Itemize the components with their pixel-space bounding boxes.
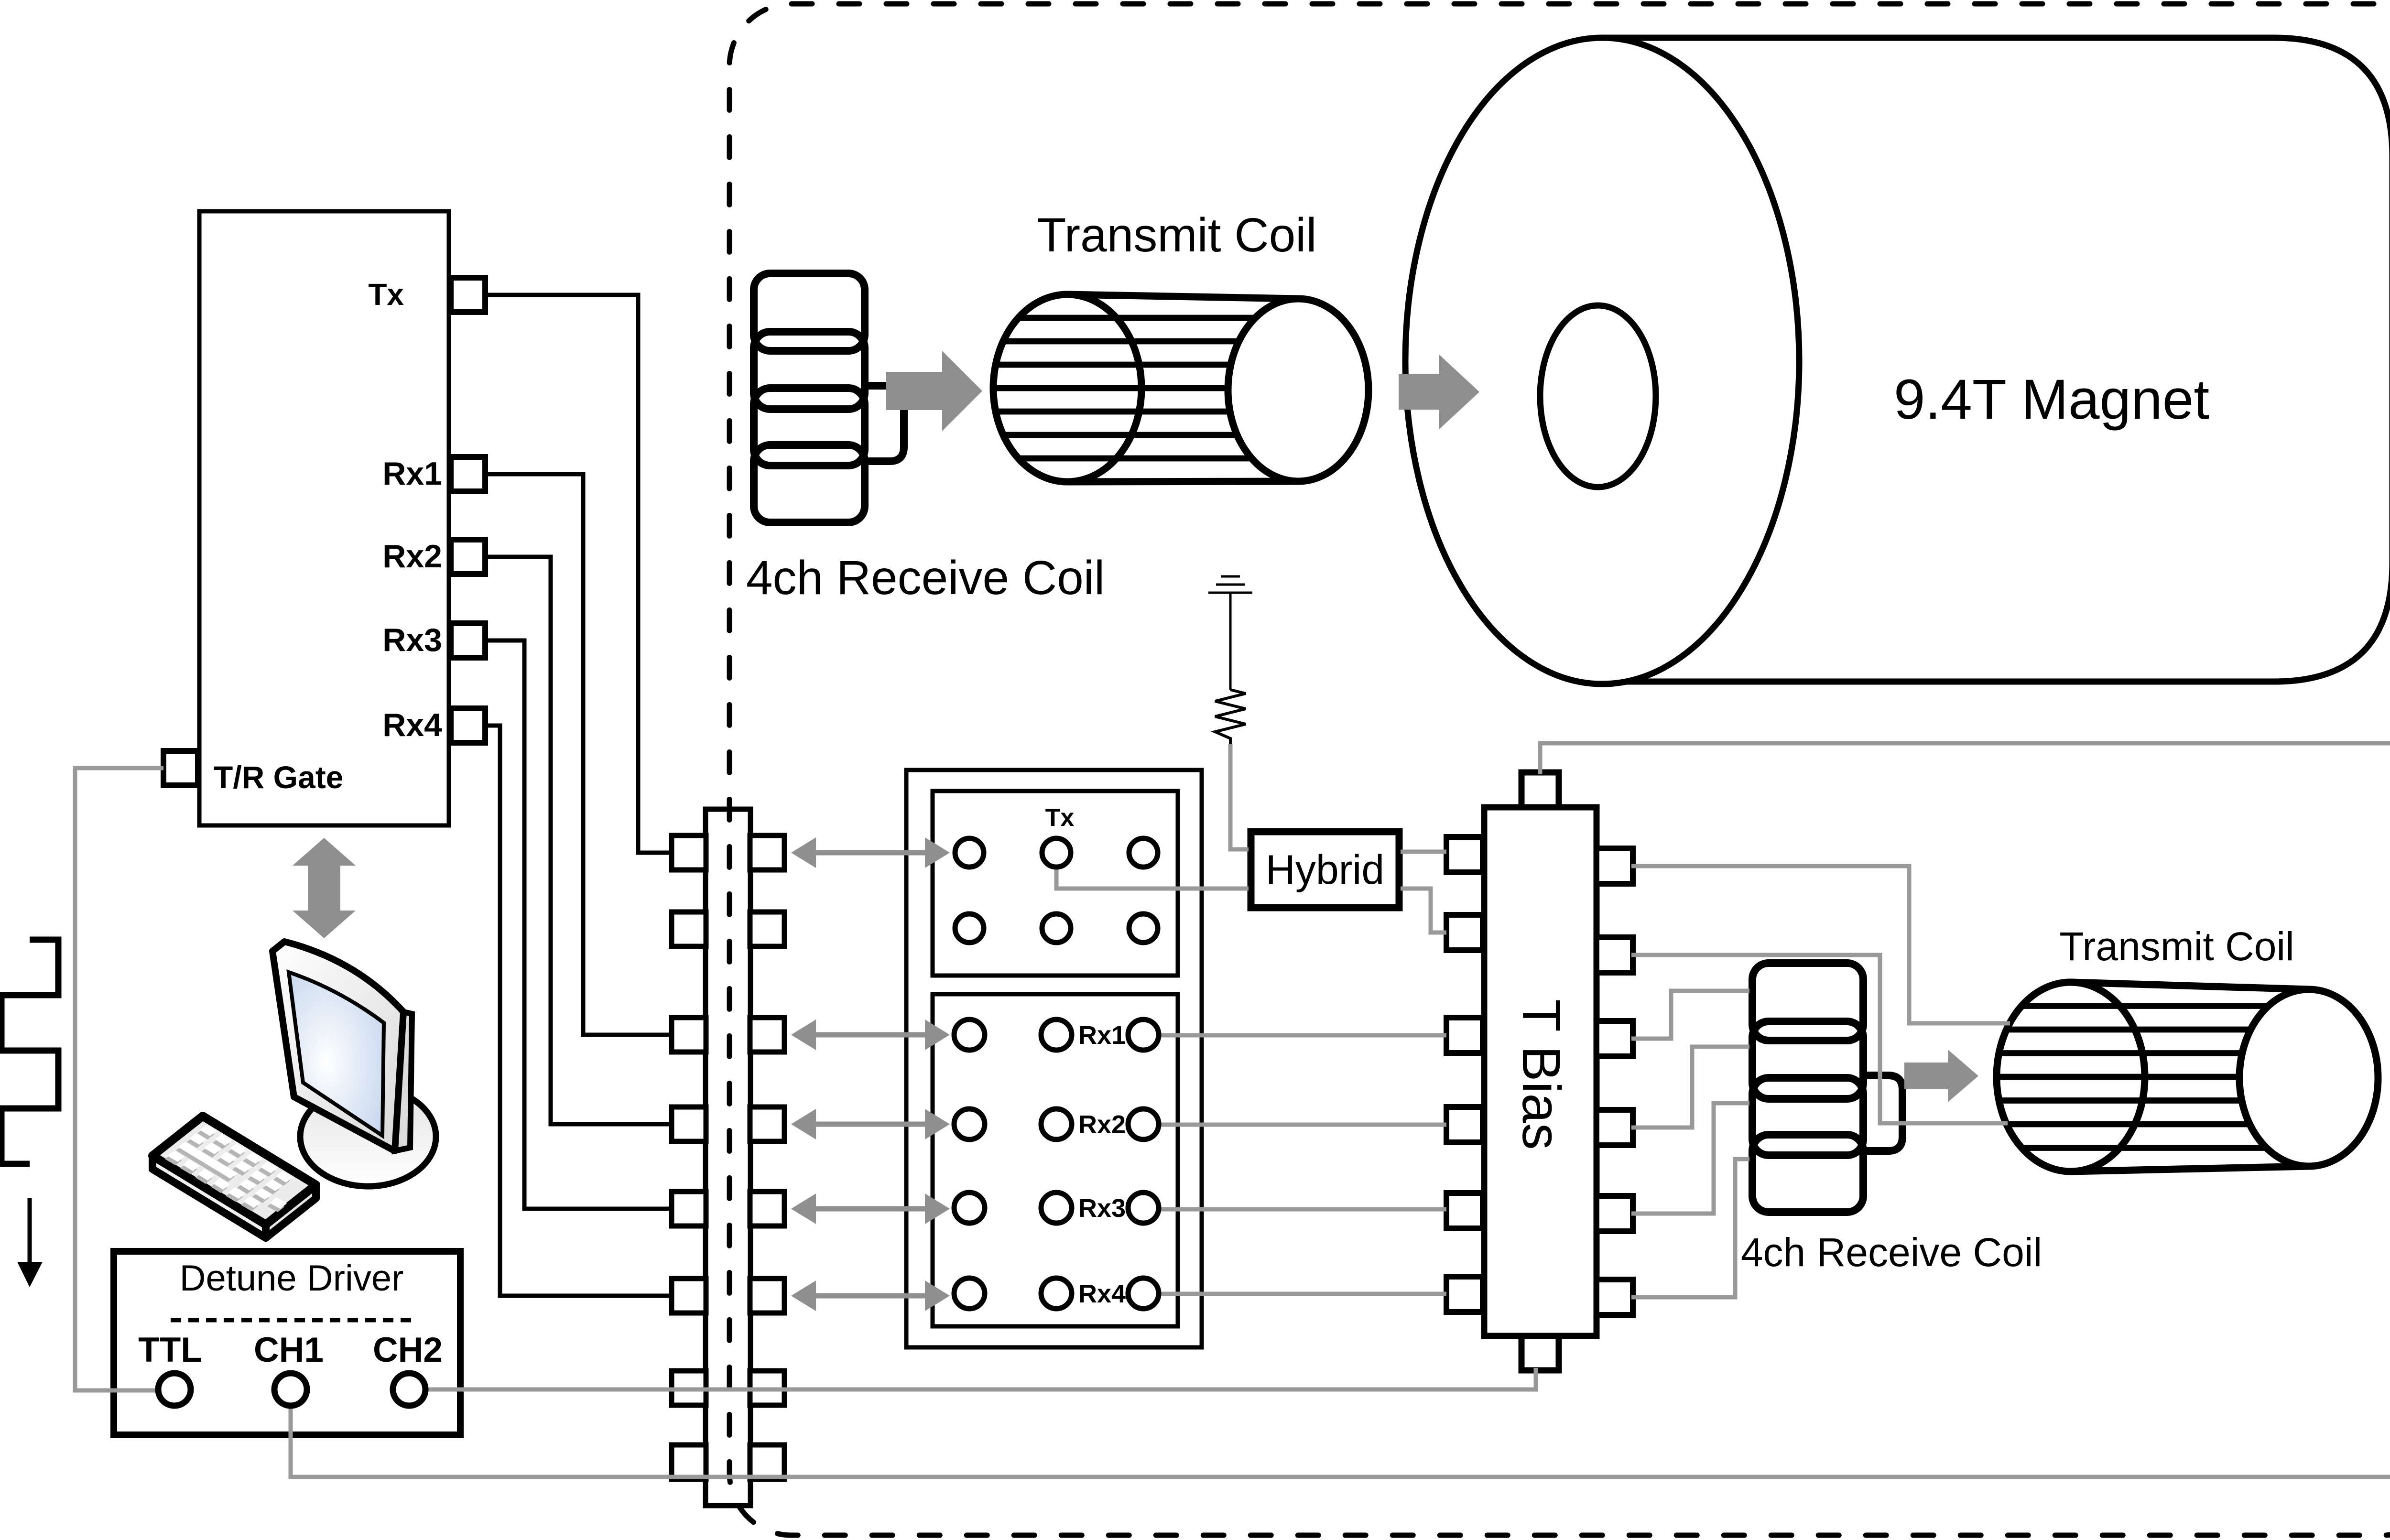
svg-text:4ch Receive Coil: 4ch Receive Coil (746, 551, 1105, 605)
svg-text:Rx4: Rx4 (382, 707, 442, 743)
svg-text:9.4T Magnet: 9.4T Magnet (1894, 368, 2209, 431)
svg-text:Rx3: Rx3 (1078, 1194, 1126, 1223)
svg-text:Rx2: Rx2 (382, 538, 442, 575)
svg-text:Rx1: Rx1 (382, 455, 442, 492)
svg-text:Rx1: Rx1 (1078, 1021, 1126, 1050)
svg-text:Rx4: Rx4 (1078, 1280, 1126, 1308)
svg-text:Tx: Tx (368, 277, 404, 312)
svg-text:Rx2: Rx2 (1078, 1110, 1126, 1139)
svg-text:TTL: TTL (138, 1331, 202, 1369)
svg-text:T/R Gate: T/R Gate (214, 759, 343, 795)
svg-text:T Bias: T Bias (1511, 999, 1571, 1150)
svg-text:4ch Receive Coil: 4ch Receive Coil (1741, 1230, 2042, 1275)
svg-text:CH1: CH1 (254, 1331, 324, 1369)
svg-text:Detune Driver: Detune Driver (180, 1258, 404, 1299)
svg-text:Transmit Coil: Transmit Coil (2059, 924, 2294, 969)
svg-text:Hybrid: Hybrid (1266, 847, 1385, 893)
svg-text:Tx: Tx (1045, 804, 1075, 832)
svg-text:CH2: CH2 (373, 1331, 443, 1369)
svg-text:Transmit Coil: Transmit Coil (1037, 208, 1316, 262)
svg-text:Rx3: Rx3 (382, 622, 442, 658)
